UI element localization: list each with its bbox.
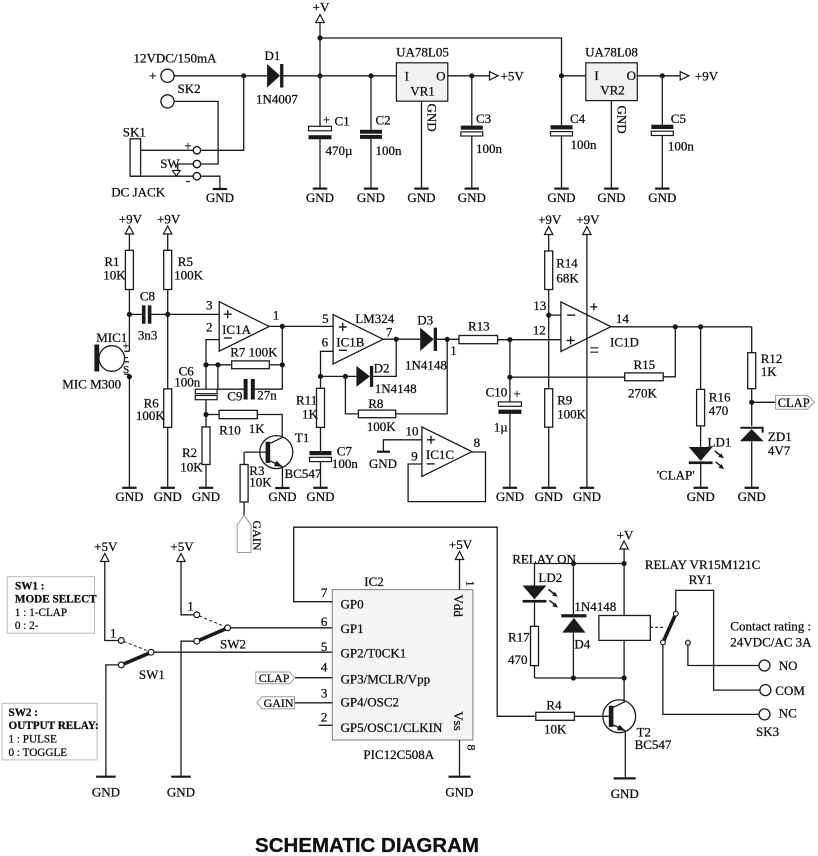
wire +9V to R1 <box>128 234 130 250</box>
power +5V (IC2 Vdd) <box>449 537 473 560</box>
wire R6 to ground <box>167 427 169 487</box>
svg-text:SK1: SK1 <box>123 125 146 140</box>
minus of IC1A <box>224 337 232 339</box>
node junction T2 collector <box>622 675 627 680</box>
svg-text:1N4148: 1N4148 <box>375 381 417 396</box>
wire relay bottom rail <box>535 677 625 679</box>
svg-text:S: S <box>123 364 129 376</box>
label C4 <box>570 111 586 126</box>
svg-text:+: + <box>149 68 156 83</box>
node junction D4 top <box>571 561 576 566</box>
label SW2 <box>220 637 246 652</box>
svg-text:VR1: VR1 <box>410 83 435 98</box>
label D4 <box>574 637 590 652</box>
power +5V (SW1) <box>94 539 118 562</box>
node junction R1/C8/mic <box>127 312 132 317</box>
wire D2 anode lead <box>321 375 357 377</box>
node junction D4 bottom <box>571 675 576 680</box>
ground R6 <box>154 488 182 504</box>
wire +V to relay coil <box>623 549 625 678</box>
mic - tick <box>125 361 129 363</box>
wire mic S to ground <box>128 374 130 488</box>
diode D3 <box>420 328 437 351</box>
svg-text:UA78L08: UA78L08 <box>585 45 638 60</box>
pin 6 label <box>322 334 329 349</box>
svg-text:7: 7 <box>386 325 393 340</box>
svg-text:4V7: 4V7 <box>768 443 791 458</box>
svg-text:BC547: BC547 <box>635 737 672 752</box>
mic S tick <box>124 373 129 375</box>
pin 7 label <box>321 585 328 600</box>
label VR2 <box>600 83 625 98</box>
wire R11 top lead <box>320 376 322 388</box>
label 470 R17 <box>508 652 528 667</box>
wire C4 top lead <box>561 76 563 125</box>
wire NC line <box>663 645 759 715</box>
wire R7 left lead <box>206 364 232 366</box>
label D3 <box>417 312 433 327</box>
label D1 <box>265 48 281 63</box>
pin I of VR1 <box>405 68 409 83</box>
label 100n C3 <box>476 141 503 156</box>
node junction C5 <box>660 73 665 78</box>
relay lever <box>664 616 675 640</box>
wire GP4 to GAIN tag <box>295 702 333 704</box>
resistor R3 <box>240 465 248 503</box>
wire jack - to ground <box>201 176 220 189</box>
label DC JACK <box>111 185 165 200</box>
label 1N4148 D4 <box>574 599 616 614</box>
svg-text:GP0: GP0 <box>341 596 364 611</box>
contact RY1 top <box>673 611 678 616</box>
wire SW2 common to GP1 <box>230 627 332 629</box>
label 27n <box>257 388 277 403</box>
label 1 : 1-CLAP <box>15 607 67 619</box>
svg-text:100n: 100n <box>376 143 403 158</box>
wire R12 to ZD1 <box>751 389 753 426</box>
svg-text:GP4/OSC2: GP4/OSC2 <box>341 694 400 709</box>
node junction R8 drop <box>343 374 348 379</box>
svg-text:R9: R9 <box>557 393 572 408</box>
wire C5 bottom lead <box>661 136 663 189</box>
svg-text:470: 470 <box>508 652 528 667</box>
label 100n C7 <box>332 456 359 471</box>
label 100n C2 <box>376 143 403 158</box>
wire D3 cathode <box>437 338 459 340</box>
wire R12 top lead <box>751 327 753 353</box>
label R3 <box>249 463 264 478</box>
wire relay contact bracket <box>676 590 760 690</box>
wire IC1B output <box>383 338 420 340</box>
plus of IC1B <box>339 323 347 331</box>
IC IC2 box <box>332 590 473 740</box>
svg-text:1K: 1K <box>761 364 778 379</box>
label + of SK2 <box>149 68 156 83</box>
resistor R7 <box>232 361 270 369</box>
diode D2 <box>356 366 373 387</box>
label + of C1 <box>323 112 330 127</box>
svg-text:1N4148: 1N4148 <box>405 358 447 373</box>
wire R14 to R9 <box>548 290 550 389</box>
wire T1 emitter to ground <box>281 467 283 488</box>
node junction IC1A out <box>280 324 285 329</box>
svg-text:GND: GND <box>573 489 601 504</box>
svg-text:6: 6 <box>321 614 328 629</box>
power +9V (R14) <box>538 212 562 235</box>
ground R9 <box>535 488 563 504</box>
resistor R14 <box>545 251 553 290</box>
power +V (relay) <box>617 528 634 550</box>
wire C9 right leg <box>255 388 282 390</box>
wire D2 cathode to pin7 <box>373 339 396 376</box>
label + of jack <box>184 138 191 153</box>
svg-text:GND: GND <box>611 786 639 801</box>
wire SK2-2 to SW contact <box>174 101 218 164</box>
label R6 <box>144 396 160 411</box>
svg-text:68K: 68K <box>556 271 579 286</box>
resistor R13 <box>459 336 498 344</box>
svg-text:D1: D1 <box>265 48 281 63</box>
node junction R5/R6 <box>165 312 170 317</box>
svg-text:SW2: SW2 <box>220 637 246 652</box>
label IC1B <box>336 334 365 349</box>
svg-text:2: 2 <box>206 319 213 334</box>
contact jack + <box>193 147 200 154</box>
label R9 <box>557 393 572 408</box>
svg-text:GND: GND <box>597 190 625 205</box>
ground VR1 <box>407 189 435 205</box>
pin 14 label <box>616 311 630 326</box>
svg-text:470µ: 470µ <box>326 143 354 158</box>
label 0 : TOGGLE <box>9 747 68 759</box>
svg-text:GAIN: GAIN <box>250 521 264 551</box>
resistor R9 <box>545 389 553 428</box>
svg-text:RY1: RY1 <box>689 572 713 587</box>
wire C8 to IC1A pin3 <box>151 313 219 315</box>
label 1 : PULSE <box>9 733 58 745</box>
pin 2 label <box>206 319 213 334</box>
wire SW contact stub <box>178 164 193 170</box>
wire R7 right lead <box>269 364 282 366</box>
svg-text:IC1A: IC1A <box>222 322 252 337</box>
label IC1C <box>426 447 454 462</box>
wire R15 right leg <box>663 327 675 377</box>
svg-text:NC: NC <box>779 706 797 721</box>
label RELAY ON <box>512 552 576 567</box>
svg-text:MIC M300: MIC M300 <box>62 377 121 392</box>
wire Vss to ground <box>459 740 461 777</box>
svg-text:R7 100K: R7 100K <box>230 345 278 360</box>
label RELAY VR15M121C <box>645 557 760 572</box>
svg-text:R14: R14 <box>556 256 578 271</box>
svg-text:6: 6 <box>322 334 329 349</box>
label 10K R4 <box>544 722 567 737</box>
label R5 <box>178 254 193 269</box>
wire to CLAP tag <box>752 401 776 403</box>
svg-text:7: 7 <box>321 585 328 600</box>
wire VR1 output <box>448 75 489 77</box>
plus of IC1C <box>427 436 435 444</box>
minus of IC1D <box>567 314 575 316</box>
wire IC1C feedback loop <box>408 452 485 502</box>
svg-text:R11: R11 <box>296 393 317 408</box>
svg-text:GND: GND <box>167 785 195 800</box>
svg-text:GND: GND <box>306 190 334 205</box>
label 12VDC/150mA <box>133 51 217 66</box>
wire R2 to ground <box>205 465 207 488</box>
svg-text:10K: 10K <box>249 475 272 490</box>
wire C6 bottom lead <box>205 400 207 427</box>
label IC2 <box>364 574 384 589</box>
pin 1 label <box>273 308 280 323</box>
label R12 <box>761 351 783 366</box>
label 3n3 <box>138 328 158 343</box>
wire R8 right leg <box>396 339 448 414</box>
wire C9 left leg <box>218 365 244 389</box>
wire R10 to T1 collector <box>257 415 282 438</box>
svg-text:270K: 270K <box>628 386 658 401</box>
svg-text:C10: C10 <box>486 384 508 399</box>
label LD2 <box>538 570 562 585</box>
svg-text:Vss: Vss <box>451 711 466 731</box>
wire C1 bottom lead <box>319 139 321 188</box>
label 4V7 <box>768 443 791 458</box>
svg-text:C1: C1 <box>335 114 350 129</box>
label R7 100K <box>230 345 278 360</box>
svg-text:CLAP: CLAP <box>259 671 290 685</box>
op-amp IC1B <box>333 315 383 365</box>
capacitor C3 <box>461 126 483 136</box>
power arrow +5V <box>490 69 525 84</box>
power +9V (IC1D V+) <box>576 212 600 235</box>
svg-text:+V: +V <box>617 528 634 543</box>
wire R17 to bottom rail <box>534 666 536 678</box>
label LD1 <box>708 434 732 449</box>
ground VR2 <box>597 189 625 205</box>
ground IC2 <box>445 777 473 800</box>
label R2 <box>182 445 197 460</box>
ground C2 <box>357 189 385 205</box>
title SCHEMATIC DIAGRAM <box>255 834 479 856</box>
label SK2 <box>178 81 201 96</box>
wire R4 to T2 base <box>574 715 608 717</box>
minus of IC1C <box>427 463 435 465</box>
relay coil RY1 <box>599 616 650 641</box>
wire +9V to R5 <box>167 234 169 250</box>
plus of IC1A <box>224 310 232 318</box>
node junction R7 left <box>203 362 208 367</box>
label T1 <box>295 430 309 445</box>
contact SW1 pos1 <box>118 638 124 644</box>
pin GND of VR1 (rotated) <box>425 104 440 132</box>
contact SW2 pos0 <box>194 638 200 644</box>
pin V+ mark of IC1D <box>590 303 597 310</box>
switch SW1 dashed <box>124 642 149 652</box>
transistor T2 <box>603 678 636 733</box>
wire C5 top lead <box>661 76 663 125</box>
wire R15 left lead <box>510 376 625 378</box>
svg-text:100n: 100n <box>476 141 503 156</box>
svg-text:ZD1: ZD1 <box>768 429 792 444</box>
wire IC1D supply line <box>586 235 588 488</box>
node junction DC jack + <box>241 73 246 78</box>
svg-text:C4: C4 <box>570 111 586 126</box>
svg-text:UA78L05: UA78L05 <box>396 45 449 60</box>
node +V supply input label <box>313 0 330 15</box>
svg-text:+5V: +5V <box>94 539 118 554</box>
wire top rail to VR2 input <box>320 38 562 76</box>
label GAIN tag (input) <box>264 696 294 710</box>
label IC1D <box>610 335 639 350</box>
svg-text:I: I <box>405 68 409 83</box>
svg-text:C3: C3 <box>476 111 491 126</box>
svg-text:+: + <box>184 138 191 153</box>
wire R16 top lead <box>700 327 702 390</box>
label NC <box>779 706 797 721</box>
wire R8 left leg <box>345 376 358 414</box>
plus of IC1D <box>567 336 575 344</box>
label 470 R16 <box>709 403 729 418</box>
pin 13 label <box>533 298 546 313</box>
label R4 <box>546 698 562 713</box>
pin V- mark of IC1D <box>590 348 598 352</box>
node junction relay rail <box>622 561 627 566</box>
transistor T1 <box>260 436 293 469</box>
pin GP4/OSC2 <box>341 694 400 709</box>
node junction CLAP out <box>749 400 754 405</box>
wire C10 top lead <box>509 377 511 402</box>
svg-text:SK3: SK3 <box>756 724 779 739</box>
wire SW1 common to GP2 <box>154 651 332 653</box>
microphone MIC1 <box>94 345 124 372</box>
label SW1 <box>139 667 165 682</box>
ground LD1 <box>687 488 715 504</box>
svg-text:GND: GND <box>458 190 486 205</box>
svg-text:IC2: IC2 <box>364 574 384 589</box>
svg-text:I: I <box>594 68 598 83</box>
wire IC1D output <box>612 326 752 328</box>
resistor R6 <box>164 389 172 428</box>
connector SK2 terminal 1 <box>161 69 174 82</box>
svg-text:GP1: GP1 <box>341 621 364 636</box>
info box SW1 <box>7 577 94 634</box>
tag GAIN (input) <box>257 697 295 709</box>
svg-text:MODE SELECT: MODE SELECT <box>15 593 97 605</box>
wire C10 to ground <box>509 414 511 488</box>
contact SW1 common <box>148 649 154 655</box>
svg-text:GND: GND <box>496 489 524 504</box>
contact jack SW <box>193 160 200 167</box>
label VR1 <box>410 83 435 98</box>
wire +5V to SW2 <box>181 562 194 615</box>
node junction D3/R8 <box>445 337 450 342</box>
label C3 <box>476 111 491 126</box>
svg-text:GND: GND <box>192 489 220 504</box>
label RY1 <box>689 572 713 587</box>
ground SW1 <box>92 777 120 800</box>
ground C1 <box>306 189 334 205</box>
svg-text:R15: R15 <box>634 357 656 372</box>
svg-text:1N4148: 1N4148 <box>574 599 616 614</box>
label UA78L08 <box>585 45 638 60</box>
regulator VR1 box <box>396 63 447 101</box>
resistor R16 <box>697 389 705 426</box>
contact SW1 pos0 <box>118 662 124 668</box>
wire R16 to LD1 <box>700 426 702 447</box>
node junction C1 <box>317 73 322 78</box>
pin 3 label <box>321 685 328 700</box>
svg-text:T1: T1 <box>295 430 309 445</box>
node junction C9 left <box>215 362 220 367</box>
node junction R7 right <box>280 362 285 367</box>
svg-text:O: O <box>627 68 636 83</box>
terminal NO <box>759 660 770 671</box>
capacitor C8 <box>142 305 152 323</box>
pin 2 label <box>321 710 328 725</box>
svg-text:3: 3 <box>206 298 213 313</box>
svg-text:+5V: +5V <box>449 537 473 552</box>
svg-text:+9V: +9V <box>576 212 600 227</box>
wire SK2 to D1 anode <box>174 75 267 77</box>
label C8 <box>140 289 155 304</box>
label BC547 T2 <box>635 737 672 752</box>
svg-text:+: + <box>323 112 330 127</box>
svg-text:GND: GND <box>738 489 766 504</box>
label Contact rating : <box>730 619 811 634</box>
svg-text:1: 1 <box>110 626 117 641</box>
svg-text:9: 9 <box>411 449 418 464</box>
label C6 <box>179 364 195 379</box>
label 100K R5 <box>174 268 204 283</box>
label SK3 <box>756 724 779 739</box>
label 1N4148 D2 <box>375 381 417 396</box>
pin 12 label <box>533 322 546 337</box>
svg-text:5: 5 <box>321 639 328 654</box>
svg-text:0 : 2-: 0 : 2- <box>15 620 39 632</box>
svg-text:100n: 100n <box>332 456 359 471</box>
label R10 <box>219 423 241 438</box>
pin GP5/OSC1/CLKIN <box>341 720 443 735</box>
ground R2 <box>192 488 220 504</box>
svg-text:D4: D4 <box>574 637 590 652</box>
svg-text:GND: GND <box>154 489 182 504</box>
wire R1 to node <box>128 290 130 315</box>
op-amp IC1C <box>422 427 472 477</box>
wire R11 to C7 <box>320 427 322 451</box>
LED LD1 <box>689 447 724 469</box>
label 1N4148 D3 <box>405 358 447 373</box>
pin 1 label (rotated) <box>464 581 478 587</box>
label GAIN vertical (rotated) <box>250 521 264 551</box>
ground C7 <box>306 488 334 504</box>
svg-text:R2: R2 <box>182 445 197 460</box>
label C9 <box>227 388 242 403</box>
svg-text:C9: C9 <box>227 388 242 403</box>
wire C1 top lead <box>319 76 321 127</box>
capacitor C5 <box>651 125 673 136</box>
svg-text:IC1C: IC1C <box>426 447 454 462</box>
svg-text:IC1B: IC1B <box>336 334 365 349</box>
wire feedback vertical <box>281 326 283 389</box>
label IC1A <box>222 322 252 337</box>
svg-text:LD2: LD2 <box>538 570 562 585</box>
capacitor C4 <box>551 125 573 136</box>
pin Vdd (rotated) <box>451 595 466 618</box>
wire D1 cathode to VR1 input <box>283 75 396 77</box>
svg-text:C5: C5 <box>671 111 686 126</box>
svg-text:GND: GND <box>407 190 435 205</box>
svg-text:Contact rating :: Contact rating : <box>730 619 811 634</box>
